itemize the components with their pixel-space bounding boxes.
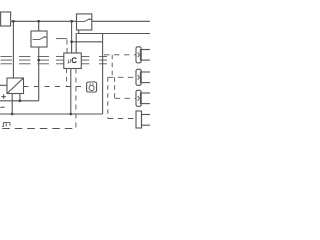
wire: converter bottom pin2 to plus rail	[19, 94, 21, 101]
dashed control line S1 to uC	[47, 38, 67, 40]
wire: line y33.5 to right edge	[76, 33, 150, 35]
node: bus junction to converter	[12, 20, 15, 23]
wire: bus down to converter top	[12, 21, 14, 78]
dashed vertical V2	[107, 77, 109, 118]
node: junction on plus rail	[19, 99, 22, 102]
dashed line to connector X2	[108, 76, 136, 78]
dashed uC left pin row3	[1, 63, 64, 65]
connector X3 plug	[136, 90, 141, 106]
timer box U3	[87, 82, 97, 92]
dashed uC right pin row3	[81, 63, 107, 65]
connector X4 plug	[136, 111, 142, 128]
connector X1 plug	[136, 47, 141, 63]
connector X4 load box	[142, 115, 152, 126]
switch S2 box	[77, 14, 92, 30]
wire: plus rail	[0, 100, 39, 102]
connector X1 load box	[140, 50, 151, 61]
dashed vertical V3	[114, 77, 116, 98]
wire: S2 bottom pin down	[78, 30, 80, 34]
dashed line to connector X3	[115, 97, 136, 99]
wire: uC bottom pin2 to minus rail	[70, 69, 72, 115]
source box G1 (top-left)	[1, 12, 11, 26]
wire: main bus top	[11, 20, 150, 22]
wire: converter left pin	[0, 84, 7, 86]
dashed uC bottom pin1 to timer line	[66, 69, 68, 87]
switch S1 contact	[33, 36, 47, 39]
timer icon	[89, 85, 94, 90]
wire: S1 bottom down to plus rail	[38, 47, 40, 101]
wire: uC top pin1 (dashed)	[66, 39, 68, 53]
pulse waveform symbol	[2, 123, 10, 127]
switch S2 contact	[77, 19, 92, 22]
dashed uC left pin row1	[1, 55, 64, 57]
dashed line converter to timer box	[24, 86, 87, 88]
label plus	[1, 94, 5, 98]
connector X2 load box	[140, 72, 151, 83]
dashed uC right pin row2	[81, 59, 107, 61]
dashed uC left pin row2	[1, 59, 64, 61]
wire: branch y41.8 to right vertical	[72, 41, 103, 43]
dashed line to connector X1	[104, 54, 136, 56]
connector X2 plug	[136, 69, 141, 85]
dashed vertical V1	[111, 55, 113, 78]
dashed line to connector X4	[108, 118, 136, 120]
converter U2 box with diagonal	[7, 78, 24, 94]
wire: uC top pin2 from bus	[71, 21, 73, 53]
dashed pulse line bottom	[2, 128, 76, 130]
wire: right vertical bus	[102, 34, 104, 115]
label minus	[0, 106, 4, 108]
dashed uC bottom pin3 to pulse line	[75, 69, 77, 129]
wire: S1 top pin	[38, 21, 40, 31]
wire: uC top pin3	[75, 34, 77, 54]
node: junction on row2 at S1 vertical	[37, 59, 40, 62]
node: junction on minus rail	[11, 113, 14, 116]
switch S1 box	[31, 31, 47, 47]
node: junction pin2 branch	[70, 40, 73, 43]
node: junction uC pin on minus rail	[69, 113, 72, 116]
dashed uC right pin row1	[81, 55, 107, 57]
microcontroller U1 box	[64, 53, 82, 69]
node: bus junction to uC pin	[70, 20, 73, 23]
node: bus junction to switch S1	[37, 20, 40, 23]
connector X3 load box	[140, 93, 151, 104]
wire: minus rail	[0, 113, 103, 115]
svg-text:C: C	[71, 56, 77, 65]
wire: converter bottom pin1 to minus rail	[11, 94, 13, 115]
